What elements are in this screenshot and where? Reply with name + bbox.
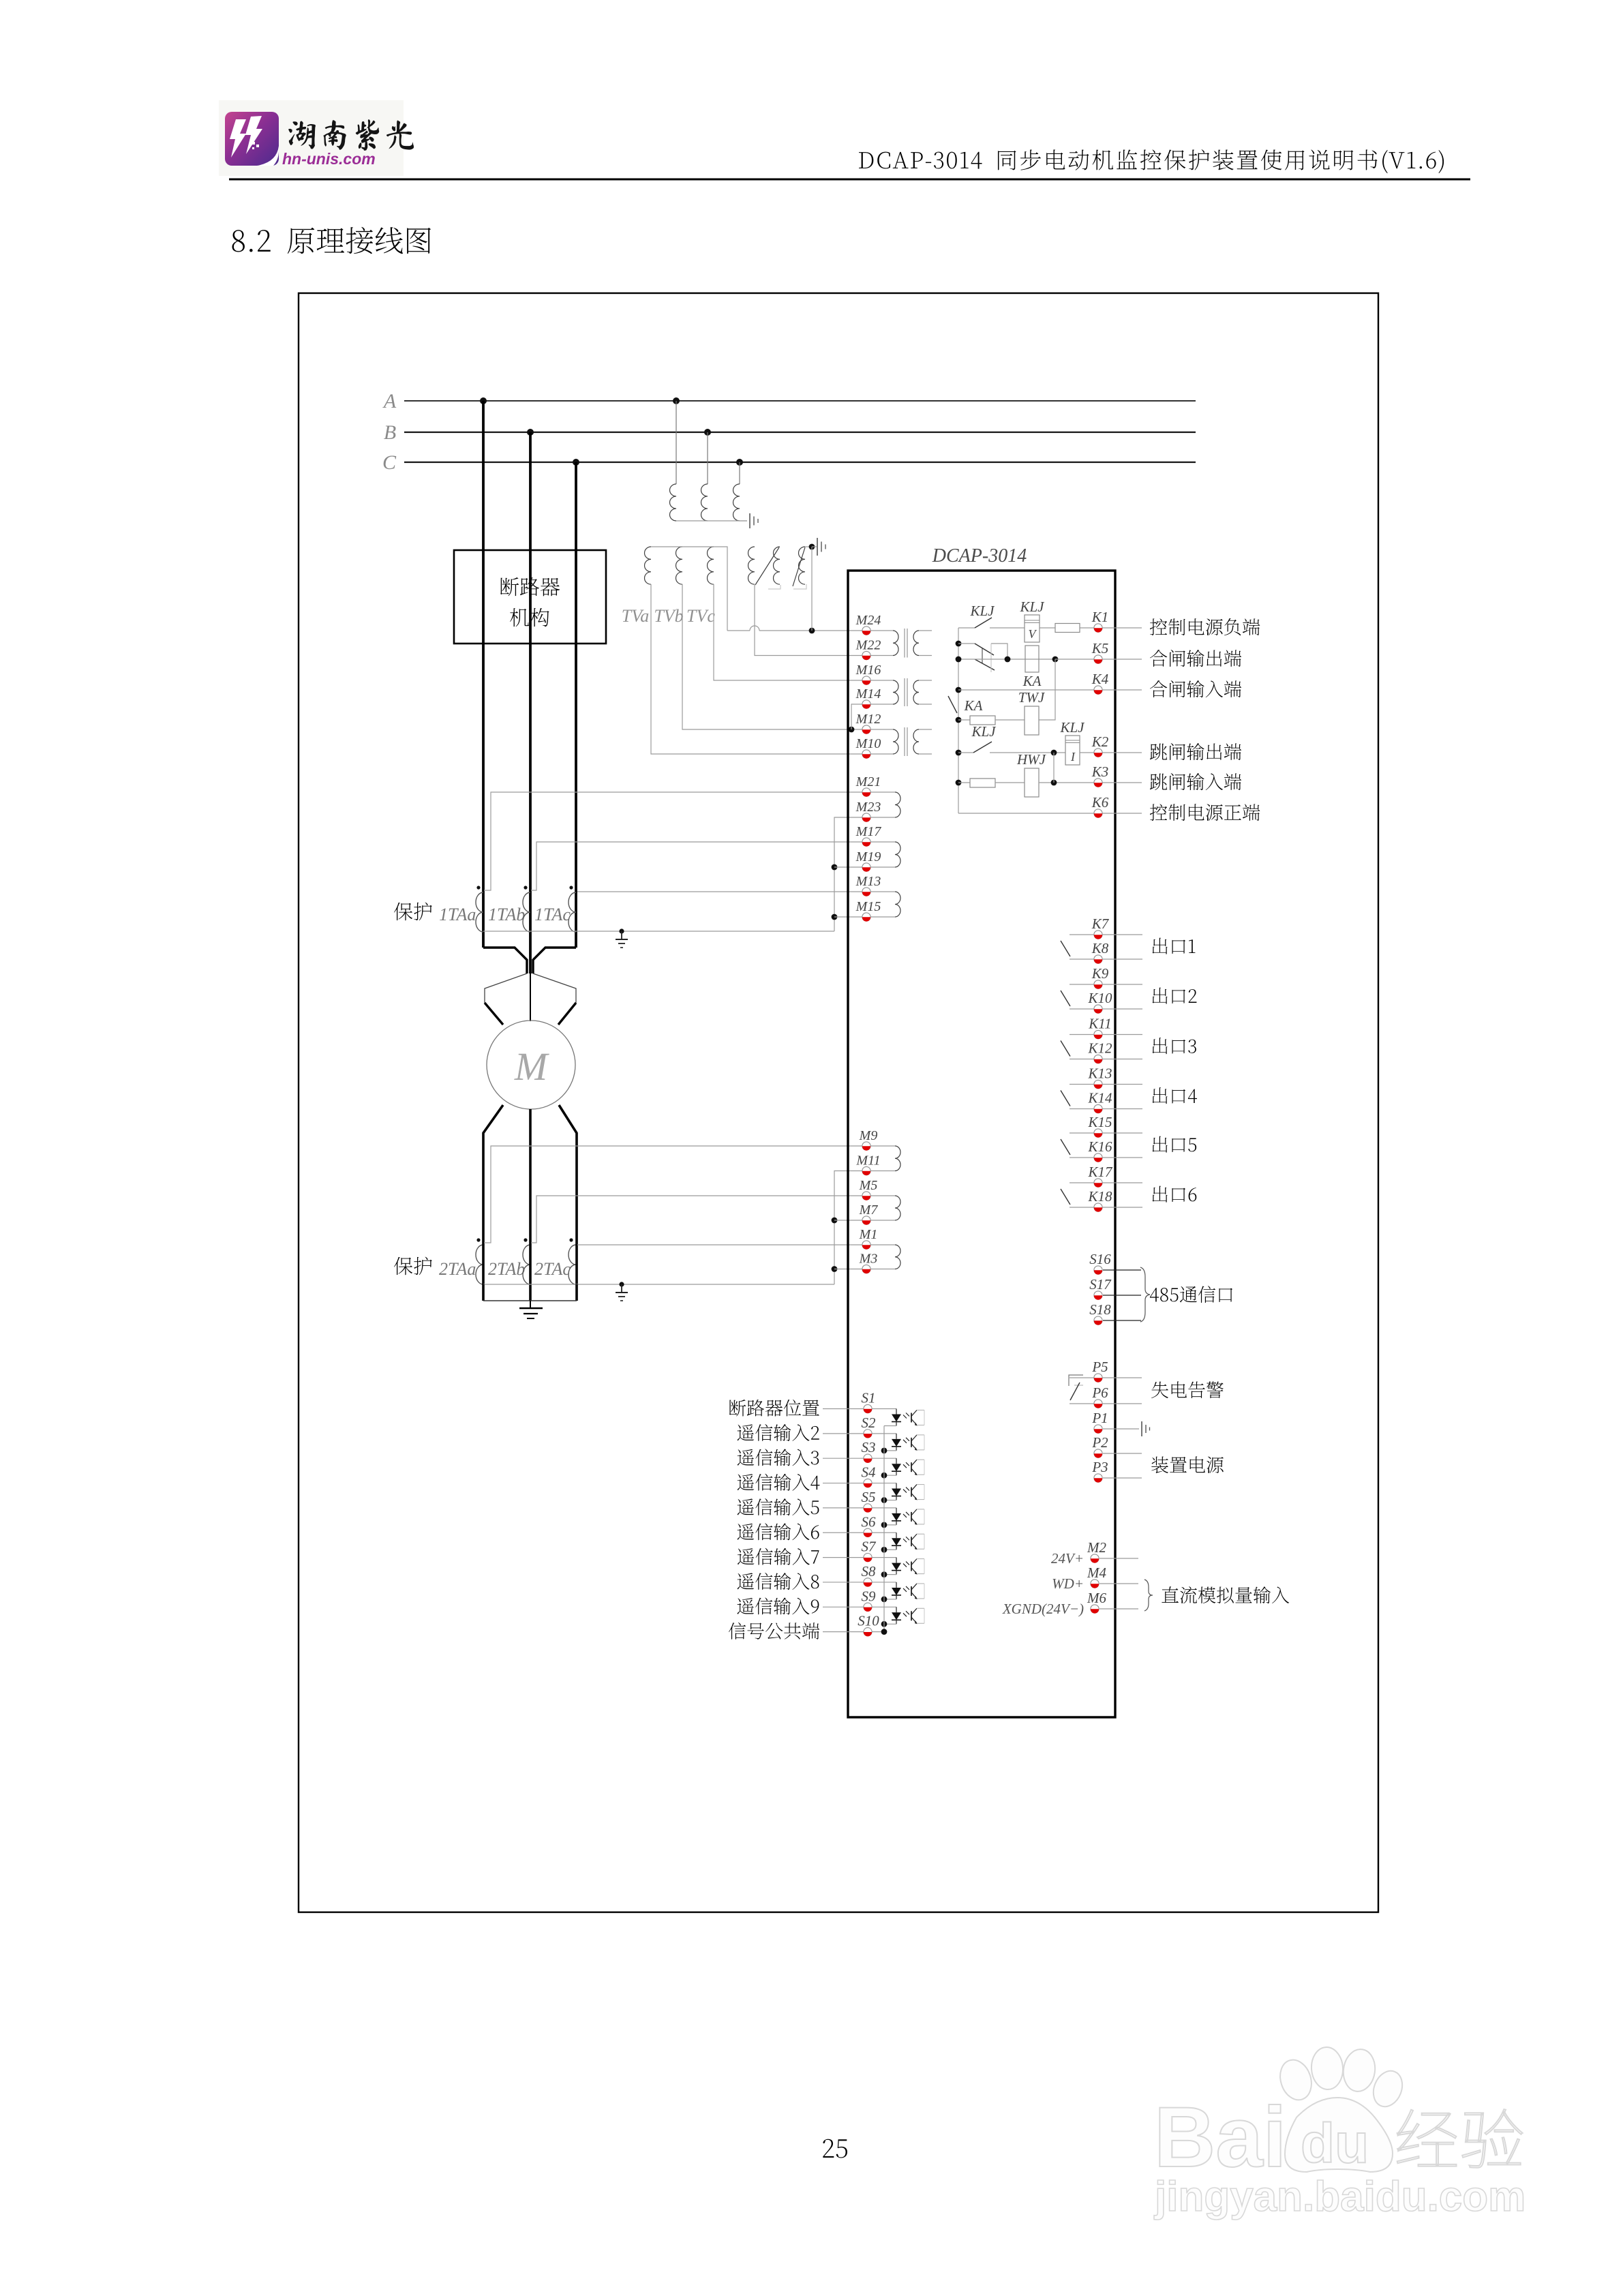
output contact 出口4 — [1061, 1085, 1142, 1109]
svg-text:K1: K1 — [1091, 609, 1109, 625]
wire motor out middle — [529, 1109, 532, 1243]
output contact 出口3 — [1061, 1035, 1142, 1059]
terminal K16 — [1087, 1138, 1112, 1162]
wire TVc to M16 — [714, 584, 862, 680]
label 24V+ — [1051, 1550, 1084, 1567]
contact KA — [948, 696, 983, 723]
svg-text:K2: K2 — [1091, 734, 1109, 750]
transformer TV2 (M16/M14) — [871, 678, 932, 706]
label 跳闸输入端 — [1150, 773, 1241, 790]
svg-text:S18: S18 — [1089, 1301, 1111, 1318]
node bus A PT tap — [673, 397, 680, 404]
svg-text:TVa: TVa — [622, 606, 649, 626]
label 控制电源正端 — [1150, 804, 1260, 821]
wire TWJ riser — [1039, 659, 1055, 720]
terminal M21 — [855, 774, 881, 797]
svg-text:M19: M19 — [855, 849, 881, 864]
PT secondary winding TVb — [676, 547, 682, 584]
PT secondary winding TVa — [645, 547, 652, 584]
svg-text:A: A — [382, 390, 397, 412]
terminal S1 — [823, 1390, 896, 1414]
wire motor out right — [559, 1105, 577, 1243]
signal common rail — [881, 1426, 888, 1635]
terminal K9 — [1091, 965, 1109, 989]
svg-text:M5: M5 — [859, 1178, 878, 1193]
terminal S2 — [823, 1415, 896, 1438]
wire 2TAb secondary to M5 — [531, 1196, 862, 1243]
wire phase B main — [529, 644, 532, 973]
wire TVb to M12 — [682, 584, 862, 729]
PT open-delta winding 3 — [793, 547, 806, 589]
svg-text:1TAa: 1TAa — [439, 905, 476, 924]
terminal S4 — [823, 1464, 896, 1488]
svg-text:P2: P2 — [1091, 1434, 1108, 1451]
wire phase B drop — [529, 432, 532, 550]
terminal M16 — [855, 663, 881, 685]
terminal K18 — [1087, 1188, 1112, 1212]
svg-text:K14: K14 — [1087, 1090, 1112, 1106]
terminal P3 — [1091, 1459, 1142, 1483]
wire 2TAa secondary to M9 — [484, 1146, 862, 1243]
svg-text:KLJ: KLJ — [971, 723, 997, 740]
svg-text:M23: M23 — [855, 800, 881, 815]
svg-text:Bai: Bai — [1154, 2090, 1287, 2185]
PT open-delta winding 2 — [768, 547, 805, 589]
terminal M23 — [855, 800, 881, 822]
wire to M15 — [834, 916, 862, 918]
svg-text:S7: S7 — [862, 1539, 877, 1555]
wire 1TA common riser — [834, 817, 862, 931]
output contact 出口1 — [1061, 935, 1142, 959]
bus C — [382, 451, 1196, 474]
brace DC analog — [1144, 1580, 1153, 1611]
node rail S7 — [881, 1571, 888, 1577]
svg-text:1TAb: 1TAb — [488, 905, 525, 924]
company logo 湖南紫光 hn-unis.com — [219, 100, 414, 176]
wire KLJ-I link — [1053, 753, 1055, 783]
terminal M6 — [1087, 1590, 1138, 1614]
terminal K8 — [1091, 940, 1109, 964]
contact KLJ (K1 row) — [958, 603, 1025, 628]
relay KLJ voltage coil V — [1019, 599, 1055, 642]
terminal P2 — [1091, 1434, 1142, 1458]
terminal S3 — [823, 1439, 896, 1463]
ground P1 — [1142, 1421, 1150, 1436]
label 跳闸输出端 — [1150, 743, 1241, 760]
svg-text:M14: M14 — [855, 686, 881, 701]
header rule — [229, 179, 1470, 181]
CT 1TAc — [534, 886, 576, 932]
svg-text:K17: K17 — [1087, 1164, 1113, 1180]
output contact 出口6 — [1061, 1183, 1142, 1207]
svg-text:KLJ: KLJ — [969, 603, 995, 619]
ground open-delta — [812, 538, 825, 556]
label 遥信输入8 — [738, 1573, 819, 1590]
terminal M10 — [855, 736, 881, 759]
label 直流模拟量输入 — [1162, 1586, 1289, 1603]
label 遥信输入5 — [738, 1498, 819, 1515]
terminal M12 — [855, 712, 881, 734]
PT secondary winding TVc — [708, 547, 714, 584]
svg-text:S3: S3 — [862, 1439, 876, 1455]
svg-text:S2: S2 — [862, 1415, 877, 1431]
svg-text:K6: K6 — [1091, 794, 1109, 811]
relay KLJ current coil I — [1059, 719, 1142, 765]
svg-text:M10: M10 — [855, 736, 881, 751]
svg-text:I: I — [1070, 750, 1076, 764]
relay KA coil — [1022, 646, 1042, 689]
wire PT primary star — [676, 520, 747, 522]
svg-text:K15: K15 — [1087, 1114, 1112, 1130]
terminal S8 — [823, 1563, 896, 1587]
svg-text:2TAc: 2TAc — [534, 1259, 571, 1279]
label 遥信输入3 — [738, 1449, 819, 1466]
terminal S5 — [823, 1489, 896, 1513]
svg-text:2TAb: 2TAb — [488, 1259, 525, 1279]
svg-text:XGND(24V−): XGND(24V−) — [1002, 1601, 1084, 1617]
node bus B junction — [527, 429, 534, 436]
svg-text:K11: K11 — [1088, 1016, 1111, 1032]
PT primary winding A — [670, 484, 677, 521]
wire K6 row — [958, 813, 1142, 814]
terminal P6 — [1091, 1385, 1108, 1408]
transformer TV3 (M12/M10) — [871, 727, 932, 756]
label 出口2 — [1153, 988, 1197, 1004]
label WD+ — [1052, 1575, 1084, 1592]
terminal M15 — [855, 899, 881, 922]
node rail S3 — [881, 1472, 888, 1479]
DCAP-3014 device box — [848, 571, 1115, 1717]
terminal K13 — [1087, 1066, 1112, 1089]
svg-text:TVb: TVb — [654, 606, 683, 626]
svg-text:M7: M7 — [859, 1203, 879, 1218]
svg-text:K4: K4 — [1091, 671, 1109, 687]
input coil M5/M7 — [871, 1196, 901, 1220]
terminal K3 — [1091, 764, 1109, 787]
svg-text:P6: P6 — [1091, 1385, 1108, 1401]
node M7 tap — [832, 1218, 838, 1224]
PT open-delta winding 1 — [748, 547, 780, 585]
breaker box 断路器机构 — [454, 550, 606, 644]
wire fan-out right — [533, 973, 576, 1003]
terminal S16 — [1089, 1251, 1141, 1275]
PT primary winding B — [701, 484, 708, 521]
output contact 出口5 — [1061, 1133, 1142, 1158]
terminal P5 — [1091, 1359, 1108, 1383]
terminal M3 — [859, 1252, 878, 1274]
PT primary winding C — [733, 484, 740, 521]
terminal M24 — [855, 613, 881, 635]
terminal S6 — [823, 1513, 896, 1537]
label TVb — [654, 606, 683, 626]
wire control bus left — [958, 628, 959, 813]
node rail S9 — [881, 1621, 888, 1627]
label 出口3 — [1153, 1038, 1196, 1054]
optocoupler U1 — [884, 1409, 924, 1426]
svg-text:DCAP-3014: DCAP-3014 — [932, 545, 1027, 567]
svg-text:K5: K5 — [1091, 640, 1109, 656]
label TVc — [686, 606, 715, 626]
terminal K5 — [1091, 640, 1109, 664]
svg-text:KLJ: KLJ — [1019, 599, 1045, 615]
input coil M9/M11 — [871, 1146, 901, 1171]
wire phase ends — [483, 1284, 577, 1301]
page number 25 — [823, 2139, 847, 2158]
CT 2TAc — [534, 1238, 577, 1284]
terminal S7 — [823, 1539, 896, 1562]
svg-text:KLJ: KLJ — [1059, 719, 1085, 736]
svg-text:K16: K16 — [1087, 1138, 1112, 1155]
wire K5 row — [956, 656, 1142, 663]
wire phase A main — [482, 644, 485, 948]
svg-text:24V+: 24V+ — [1051, 1550, 1084, 1567]
svg-text:M21: M21 — [855, 774, 881, 789]
svg-text:S4: S4 — [862, 1464, 877, 1481]
node M19 tap — [832, 864, 838, 871]
svg-text:M2: M2 — [1087, 1539, 1106, 1556]
bus A — [382, 390, 1196, 412]
input coil M17/M19 — [871, 842, 901, 867]
terminal K7 — [1091, 916, 1110, 939]
terminal M11 — [855, 1153, 880, 1176]
svg-text:M24: M24 — [855, 613, 881, 628]
ground motor star — [519, 1301, 543, 1318]
wire open-delta top to ground — [805, 544, 815, 550]
svg-text:M15: M15 — [855, 899, 881, 914]
wire phase A drop — [482, 401, 485, 550]
svg-text:hn-unis.com: hn-unis.com — [282, 150, 376, 168]
svg-text:K9: K9 — [1091, 965, 1109, 982]
label TVa — [622, 606, 649, 626]
svg-text:K3: K3 — [1091, 764, 1109, 780]
wire TVa to M10 — [651, 584, 862, 754]
ground 1TA common — [616, 928, 628, 948]
label 遥信输入7 — [738, 1548, 819, 1565]
svg-text:KA: KA — [1022, 673, 1042, 689]
terminal K2 — [1091, 734, 1109, 757]
optocoupler U5 — [884, 1508, 924, 1525]
resistor R1 — [1055, 624, 1142, 633]
label 信号公共端 — [729, 1622, 819, 1640]
terminal M5 — [859, 1178, 878, 1200]
resistor R2 — [970, 716, 1025, 725]
node KLJ-2 top — [956, 641, 962, 647]
optocoupler U4 — [884, 1483, 924, 1500]
terminal K17 — [1087, 1164, 1113, 1188]
wire into motor right — [558, 1003, 576, 1025]
terminal M1 — [859, 1227, 878, 1250]
optocoupler U6 — [884, 1532, 924, 1550]
terminal S9 — [823, 1588, 896, 1612]
node bus C PT tap — [736, 459, 743, 466]
contact KLJ-2 — [958, 644, 1007, 672]
svg-text:K8: K8 — [1091, 940, 1109, 956]
terminal M9 — [859, 1128, 878, 1151]
svg-text:TWJ: TWJ — [1018, 689, 1046, 706]
terminal M17 — [855, 824, 882, 847]
CT 1TAa — [439, 886, 483, 932]
terminal S17 — [1089, 1276, 1141, 1300]
CT 2TAb — [488, 1238, 530, 1301]
terminal S18 — [1089, 1301, 1141, 1325]
svg-text:M4: M4 — [1087, 1565, 1106, 1581]
svg-text:K10: K10 — [1087, 990, 1112, 1006]
terminal M19 — [855, 849, 881, 872]
section heading 8.2 原理接线图 — [232, 227, 431, 254]
node bus B PT tap — [704, 429, 711, 436]
label 保护 (2TA) — [394, 1257, 432, 1275]
svg-text:M9: M9 — [859, 1128, 878, 1143]
svg-text:S10: S10 — [858, 1613, 879, 1629]
svg-text:S1: S1 — [862, 1390, 876, 1406]
label 出口4 — [1153, 1087, 1197, 1104]
brace 485 — [1140, 1267, 1150, 1322]
svg-text:K13: K13 — [1087, 1066, 1112, 1082]
node rail S5 — [881, 1522, 888, 1528]
wire to M7 — [834, 1220, 862, 1221]
terminal S10 — [823, 1613, 884, 1637]
wire phase A neck — [483, 948, 527, 973]
wire K3 row — [956, 780, 970, 786]
label 遥信输入9 — [737, 1597, 819, 1614]
input coil M21/M23 — [871, 792, 901, 817]
node M3 tap — [832, 1266, 838, 1272]
terminal M14 — [855, 686, 881, 709]
node rail S2 — [881, 1447, 888, 1453]
label XGND(24V-) — [1002, 1601, 1084, 1617]
node bus A junction — [480, 397, 487, 404]
label 失电告警 — [1151, 1381, 1224, 1398]
label 遥信输入4 — [738, 1474, 820, 1491]
wire 2TAc secondary to M1 — [577, 1244, 862, 1245]
wire star point — [483, 1300, 577, 1301]
contact KLJ-3 (K2 row) — [956, 723, 1065, 755]
input coil M13/M15 — [871, 892, 901, 917]
ground 2TA common — [616, 1282, 628, 1301]
terminal K15 — [1087, 1114, 1112, 1138]
ground PT primary star — [740, 513, 758, 528]
optocoupler U3 — [884, 1458, 924, 1475]
svg-text:P5: P5 — [1091, 1359, 1108, 1375]
label 装置电源 — [1151, 1456, 1224, 1473]
svg-text:S6: S6 — [862, 1513, 877, 1530]
wire 2TA secondary common — [483, 1284, 834, 1285]
label 出口5 — [1153, 1136, 1197, 1153]
node rail S8 — [881, 1597, 888, 1603]
svg-text:V: V — [1029, 627, 1037, 641]
svg-text:M16: M16 — [855, 663, 881, 678]
wire phase C neck — [533, 948, 576, 973]
terminal M2 — [1087, 1539, 1138, 1563]
wire 1TA secondary common — [483, 931, 834, 932]
transformer TV1 (M24/M22) — [871, 629, 932, 658]
svg-text:S17: S17 — [1089, 1276, 1112, 1293]
wire 2TA common riser — [834, 1171, 862, 1285]
svg-text:M: M — [514, 1044, 549, 1089]
svg-text:C: C — [382, 451, 397, 474]
output contact 出口2 — [1061, 984, 1142, 1009]
wire PT drop C — [739, 462, 740, 484]
node rail S6 — [881, 1547, 888, 1553]
terminal K1 — [1091, 609, 1109, 633]
wire 1TAc secondary to M13 — [577, 891, 862, 892]
terminal M22 — [855, 638, 881, 661]
label 断路器位置 — [729, 1400, 819, 1417]
node M12 branch — [849, 727, 855, 733]
input coil M1/M3 — [871, 1245, 901, 1269]
label 485通信口 — [1150, 1286, 1232, 1303]
motor M — [487, 1021, 575, 1109]
svg-text:M12: M12 — [855, 712, 881, 727]
CT 2TAa — [439, 1238, 483, 1284]
svg-text:M13: M13 — [855, 874, 881, 889]
wire branch to M14 — [851, 704, 862, 729]
optocoupler U8 — [884, 1582, 924, 1599]
relay TWJ coil — [1018, 689, 1046, 735]
svg-text:M11: M11 — [855, 1153, 880, 1168]
svg-text:M1: M1 — [859, 1227, 878, 1242]
terminal M7 — [859, 1203, 879, 1225]
label 遥信输入6 — [738, 1523, 819, 1540]
label 合闸输出端 — [1150, 650, 1241, 667]
terminal P1 — [1091, 1410, 1139, 1434]
optocoupler U9 — [884, 1607, 924, 1624]
svg-text:S8: S8 — [862, 1563, 877, 1580]
node rail S4 — [881, 1497, 888, 1503]
wire motor out left — [483, 1105, 503, 1243]
label DCAP-3014 — [932, 545, 1027, 567]
page header title — [859, 149, 1444, 173]
svg-text:S5: S5 — [862, 1489, 876, 1505]
svg-text:1TAc: 1TAc — [534, 905, 571, 924]
wire into motor left — [485, 1003, 503, 1025]
svg-text:P1: P1 — [1091, 1410, 1108, 1426]
label 合闸输入端 — [1150, 680, 1241, 697]
svg-text:P3: P3 — [1091, 1459, 1108, 1475]
optocoupler U7 — [884, 1558, 924, 1575]
svg-text:2TAa: 2TAa — [439, 1259, 476, 1279]
terminal K10 — [1087, 990, 1112, 1014]
watermark Baidu 经验 jingyan.baidu.com — [1154, 2046, 1526, 2220]
terminal K6 — [1091, 794, 1109, 818]
label 出口1 — [1153, 938, 1196, 954]
wire 1TAb secondary to M17 — [531, 842, 862, 890]
svg-text:S16: S16 — [1089, 1251, 1111, 1267]
wire TV secondary common — [651, 547, 727, 631]
svg-text:M22: M22 — [855, 638, 881, 653]
terminal K12 — [1087, 1040, 1112, 1064]
optocoupler U2 — [884, 1434, 924, 1451]
node M15 tap — [832, 914, 838, 920]
svg-text:K7: K7 — [1091, 916, 1110, 932]
svg-text:M17: M17 — [855, 824, 882, 839]
wire phase C main — [575, 644, 577, 948]
wire phase B into motor — [530, 973, 531, 1021]
wire to M19 — [834, 866, 862, 868]
terminal K14 — [1087, 1090, 1112, 1114]
label 遥信输入2 — [738, 1424, 819, 1441]
label 控制电源负端 — [1150, 618, 1260, 635]
wire to M3 — [834, 1269, 862, 1270]
bus B — [384, 421, 1196, 444]
node bus C junction — [573, 459, 579, 466]
svg-text:S9: S9 — [862, 1588, 877, 1604]
svg-text:jingyan.baidu.com: jingyan.baidu.com — [1154, 2173, 1526, 2220]
wire PT drop A — [676, 401, 677, 484]
label 出口6 — [1153, 1186, 1197, 1203]
resistor R3 — [970, 779, 1025, 787]
wire PT drop B — [707, 432, 708, 484]
